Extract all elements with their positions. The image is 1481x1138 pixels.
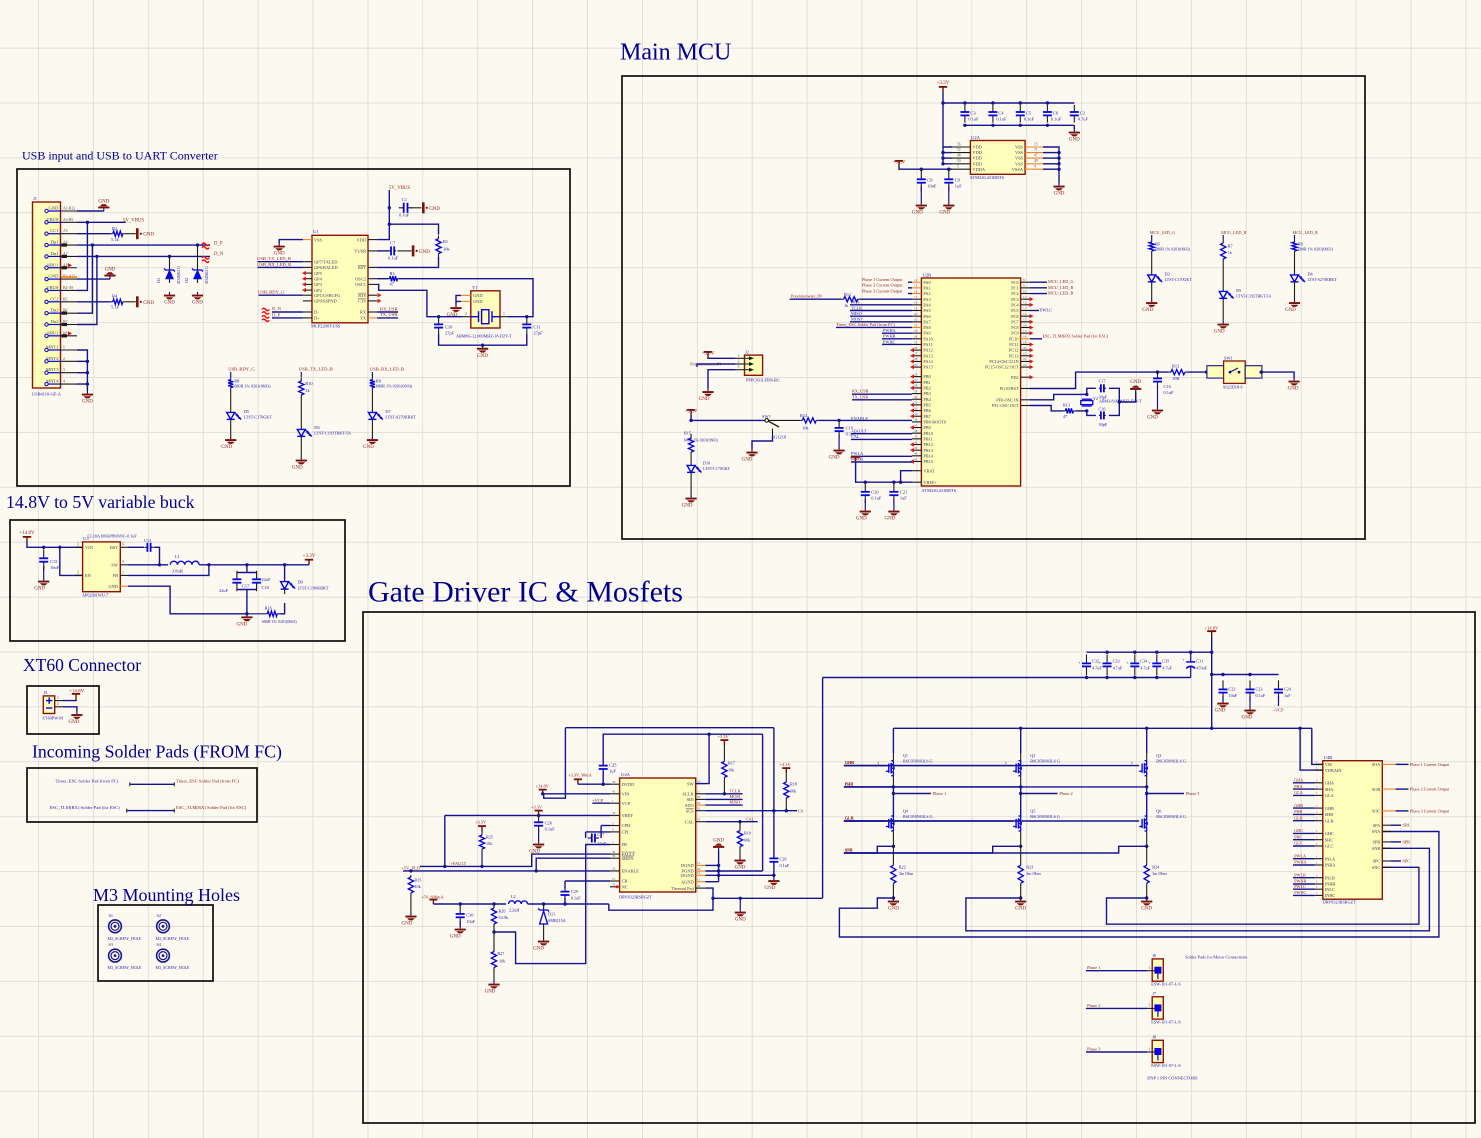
junction EN tap <box>58 546 61 549</box>
no-ERC PB15 <box>910 459 914 463</box>
svg-text:3.8uH: 3.8uH <box>172 569 184 574</box>
capacitor C21 1uF <box>889 484 898 503</box>
svg-text:MOSI: MOSI <box>851 317 862 322</box>
junction Dn1-D1 <box>168 255 171 258</box>
svg-text:D-: D- <box>314 310 319 315</box>
svg-text:Timer_ESC Solder Pad (from FC): Timer_ESC Solder Pad (from FC) <box>56 779 119 784</box>
lead R27 gnd <box>493 968 495 982</box>
Y1 pin4 GND <box>461 294 471 296</box>
junction C16a <box>1156 370 1159 373</box>
wire Dn1 net D_N <box>77 255 210 257</box>
svg-text:VIN: VIN <box>85 545 94 550</box>
pin pad mark <box>62 266 68 269</box>
svg-text:4: 4 <box>63 380 65 384</box>
resistor R9 <box>370 378 375 390</box>
junction C20 <box>864 481 867 484</box>
svg-text:4: 4 <box>1005 761 1007 765</box>
U1 pin RTS <box>368 294 377 296</box>
ground flag R22 <box>888 898 899 912</box>
svg-text:C6: C6 <box>1053 111 1059 116</box>
mounting hole S3 <box>109 949 122 962</box>
junction PHA <box>892 785 895 788</box>
wire net SPA right <box>1391 824 1401 826</box>
svg-text:PA5: PA5 <box>923 308 930 313</box>
wire rail A <box>565 727 774 729</box>
wire MCU_LED_R down <box>1294 235 1296 239</box>
svg-text:VDD: VDD <box>972 161 982 166</box>
svg-text:22uF: 22uF <box>219 588 229 593</box>
LED D5 <box>1219 289 1234 303</box>
power port +3.3V vref <box>849 456 862 462</box>
wire net PWHC <box>882 343 912 345</box>
svg-text:SBU1: SBU1 <box>47 262 59 267</box>
LED D9 <box>281 579 296 594</box>
svg-text:5: 5 <box>957 165 959 169</box>
transistor Q3 BSC050N03LS <box>1139 761 1148 776</box>
svg-text:GLA: GLA <box>1294 790 1303 795</box>
wire CPL down <box>585 832 587 838</box>
svg-text:BSC050N03LS G: BSC050N03LS G <box>1156 814 1186 819</box>
svg-text:Phase 3: Phase 3 <box>1087 1046 1100 1051</box>
svg-text:22uF: 22uF <box>262 577 272 582</box>
wire PHA <box>844 786 894 788</box>
U2B pin PB4 <box>912 398 921 400</box>
J1 pin MNT4 <box>45 379 77 386</box>
pin pad mark <box>62 323 68 326</box>
ground flag at J1 pin7 <box>104 268 115 279</box>
svg-text:DGND: DGND <box>681 873 694 878</box>
svg-text:DNP 1 PIN CONNECTORS: DNP 1 PIN CONNECTORS <box>1147 1076 1198 1081</box>
svg-text:LTST-S270KRKT: LTST-S270KRKT <box>1308 277 1338 282</box>
svg-text:ESW-101-07-L-S: ESW-101-07-L-S <box>1151 1063 1181 1068</box>
svg-text:10k: 10k <box>414 884 421 889</box>
capacitor C23 0.1uF <box>1246 680 1255 701</box>
wire phase node PHB <box>1020 787 1022 816</box>
capacitor C9 1uF <box>944 170 953 191</box>
svg-text:INLB: INLB <box>1325 875 1335 880</box>
svg-text:13: 13 <box>1023 306 1027 310</box>
power bar +5V <box>429 899 437 904</box>
svg-text:+3.3V: +3.3V <box>718 734 730 739</box>
lead R19 top <box>739 822 741 831</box>
svg-text:33: 33 <box>914 412 918 416</box>
connector J6 ESW-101-07-L-S body <box>1152 959 1163 981</box>
junction C3 top <box>963 101 966 104</box>
junction R26 <box>492 902 495 905</box>
J2 pin 1 <box>736 357 745 359</box>
U2B pin PC15-OSC32 OUT <box>1021 366 1030 368</box>
wire VSS rail <box>1043 147 1059 183</box>
pin pad mark <box>62 312 68 315</box>
svg-text:22: 22 <box>1023 357 1027 361</box>
no-ERC PC8 <box>1030 325 1034 329</box>
wire J5 to GND <box>63 707 77 712</box>
svg-text:D9: D9 <box>298 580 304 585</box>
svg-text:34: 34 <box>697 801 701 805</box>
svg-text:J8: J8 <box>1152 1035 1156 1040</box>
capacitor C15 10uF <box>39 549 48 570</box>
ground flag Y1 <box>447 305 462 319</box>
svg-text:VUSB: VUSB <box>354 249 366 254</box>
wire PWLB PB15 <box>851 461 912 463</box>
svg-text:C28: C28 <box>780 857 787 862</box>
svg-text:B5: B5 <box>63 297 68 301</box>
svg-text:U4A: U4A <box>621 772 631 777</box>
svg-text:+3.3V: +3.3V <box>937 81 950 86</box>
junction C33 bottom <box>1105 676 1108 679</box>
section box: Main MCU <box>622 76 1365 539</box>
wire Timer_ESC pad <box>130 783 175 785</box>
lead D5-gnd <box>1222 303 1224 321</box>
U4A pin VREF <box>610 814 620 816</box>
no-ERC PC7 <box>1030 320 1034 324</box>
svg-text:U2A: U2A <box>971 135 981 140</box>
svg-text:ESW-101-07-L-S: ESW-101-07-L-S <box>1151 1020 1181 1025</box>
U4B pin VM <box>1315 763 1323 765</box>
U2A pin VSS <box>1025 152 1043 154</box>
U2B pin PB15 <box>912 461 921 463</box>
svg-text:50: 50 <box>957 159 961 163</box>
svg-text:SNA: SNA <box>1372 829 1381 834</box>
svg-text:Dp1: Dp1 <box>51 240 60 245</box>
svg-text:Phase 1 Current Output: Phase 1 Current Output <box>862 277 903 282</box>
svg-text:D+: D+ <box>314 316 320 321</box>
no-ERC PA15 <box>910 365 914 369</box>
junction rail <box>941 101 944 104</box>
svg-text:PWHB: PWHB <box>883 334 896 339</box>
capacitor C6 0.1uF <box>1043 105 1052 123</box>
wire net MCU_LED_G <box>1030 281 1047 283</box>
svg-text:D5: D5 <box>244 409 250 414</box>
svg-text:CC2: CC2 <box>50 296 59 301</box>
wire SPA <box>844 846 894 853</box>
U2B pin PA0 <box>912 281 921 283</box>
svg-text:DRV8323RSRGZT: DRV8323RSRGZT <box>619 895 652 900</box>
resistor R26 54.9k <box>491 905 496 927</box>
ground flag Y2 <box>1130 380 1141 392</box>
capacitor C20 0.1uF <box>861 484 870 503</box>
U2B pin PB13 <box>912 449 921 451</box>
svg-text:MCU_LED_R: MCU_LED_R <box>1048 291 1073 296</box>
wire net MISO <box>850 315 912 317</box>
svg-text:R2: R2 <box>112 226 117 231</box>
wire SPC <box>844 846 1147 853</box>
svg-text:SDO: SDO <box>685 803 694 808</box>
U4B pin SPB right <box>1382 841 1391 843</box>
ground flag R24 <box>1141 898 1152 912</box>
svg-text:GND: GND <box>829 456 840 461</box>
U4B pin SOB right <box>1382 788 1395 790</box>
no-ERC PB0 <box>910 374 914 378</box>
svg-text:USB input and USB to UART Conv: USB input and USB to UART Converter <box>22 149 218 163</box>
svg-text:GND: GND <box>735 866 746 871</box>
transistor Q5 BSC050N03LS <box>1013 816 1022 831</box>
svg-text:C8: C8 <box>927 178 933 183</box>
IC U4B DRV8323RSRGZT body <box>1323 761 1383 900</box>
wire VDD to R1 top <box>389 224 438 234</box>
Q4 source lead <box>892 831 894 846</box>
U2B pin PC7 <box>1021 321 1030 323</box>
svg-text:4.7uF: 4.7uF <box>1078 117 1089 122</box>
svg-text:4: 4 <box>1034 165 1036 169</box>
stub gnd bus flag <box>739 898 741 909</box>
wire +3.3V to switch <box>691 415 765 420</box>
junction VDD rail 163.8 <box>941 162 944 165</box>
junction VBAT <box>899 481 902 484</box>
U3 pin FB <box>120 574 128 576</box>
svg-text:PWHC: PWHC <box>883 339 896 344</box>
wire xtal loop top2 <box>1109 388 1119 402</box>
svg-text:LTST-C170GKT: LTST-C170GKT <box>1165 277 1193 282</box>
U3 pin GND <box>120 585 128 587</box>
svg-text:BSC050N03LS G: BSC050N03LS G <box>1030 759 1060 764</box>
svg-text:PB12: PB12 <box>923 442 933 447</box>
wire TX_USB PB4 <box>852 399 912 401</box>
lead R5-D3 <box>1151 254 1153 273</box>
U2B pin PC11 <box>1021 343 1030 345</box>
lead R22 bottom <box>892 883 894 898</box>
svg-text:M3 Mounting Holes: M3 Mounting Holes <box>93 885 240 905</box>
connector J1 USB4110-GF-A body <box>33 202 61 388</box>
svg-text:D10: D10 <box>703 461 710 466</box>
svg-text:M3_SCREW_HOLE: M3_SCREW_HOLE <box>108 936 143 941</box>
pin tick L1 <box>129 782 131 786</box>
U2B pin PA2 <box>912 293 921 295</box>
Q1 source lead <box>892 776 894 787</box>
lead C1 gnd <box>411 207 422 209</box>
junction VDD rail 158.1 <box>941 156 944 159</box>
wire drain Q2 <box>1020 728 1022 753</box>
svg-text:PHC: PHC <box>1294 834 1302 839</box>
wire RX_USB <box>377 311 398 313</box>
lead R2 to gnd <box>125 233 136 235</box>
capacitor C35 4.7uF <box>1152 654 1161 675</box>
svg-text:19: 19 <box>1023 340 1027 344</box>
wire R16 to D9 <box>279 603 284 614</box>
U1 pin GP2 <box>303 289 312 291</box>
svg-text:2: 2 <box>77 571 79 575</box>
J7 pad symbol <box>1154 1004 1161 1017</box>
svg-text:10k: 10k <box>728 768 735 773</box>
svg-text:Dn1: Dn1 <box>51 251 60 256</box>
svg-text:MCU_LED_G: MCU_LED_G <box>1048 279 1074 284</box>
lead D11 top <box>543 904 545 910</box>
junction vcp rail <box>1210 673 1213 676</box>
U2A pin VDD <box>952 146 970 148</box>
J2 pin arrow 2 <box>749 362 754 366</box>
svg-text:D6: D6 <box>314 425 320 430</box>
wire R11 to PA3 <box>860 298 912 300</box>
svg-text:OSC2: OSC2 <box>355 276 366 281</box>
power port +3.3V buck out <box>303 554 316 565</box>
Q5 source lead <box>1020 831 1022 846</box>
wire ESC_TLM pad <box>127 810 175 812</box>
power bar +3.3V 30mA <box>574 778 582 784</box>
J5 pin2 <box>55 706 63 708</box>
junction R15 tap <box>689 419 692 422</box>
lead D6-gnd <box>300 441 302 457</box>
wire crystal right node <box>508 316 527 318</box>
junction C5 top <box>1019 101 1022 104</box>
svg-text:SD4580211: SD4580211 <box>205 266 209 284</box>
wire SDI <box>705 798 742 800</box>
junction VIN +14.8V <box>541 792 544 795</box>
wire gate GHB <box>844 765 1013 767</box>
svg-text:PC7: PC7 <box>1011 319 1019 324</box>
junction C9 <box>947 168 950 171</box>
U1 pin OSC1 <box>368 283 377 285</box>
svg-text:22: 22 <box>914 323 918 327</box>
svg-text:PA12: PA12 <box>923 348 932 353</box>
svg-text:ESC_TLM(RX) Solder Pad (for ES: ESC_TLM(RX) Solder Pad (for ESC) <box>1043 334 1109 339</box>
svg-text:GND: GND <box>49 274 60 279</box>
wire net SPB right <box>1391 841 1401 843</box>
lead R22 top <box>892 846 894 865</box>
svg-text:SHA: SHA <box>1325 787 1334 792</box>
svg-text:3: 3 <box>465 312 467 316</box>
svg-text:VDD: VDD <box>356 237 366 242</box>
Y1 pin2 GND <box>461 300 471 302</box>
wire cap bank top rail <box>1087 651 1212 653</box>
U2B pin PC12 <box>1021 349 1030 351</box>
pin tick R1 <box>173 782 175 786</box>
svg-text:Phase 3 Current Output: Phase 3 Current Output <box>1410 808 1450 813</box>
junction C25-DVDD <box>602 783 605 786</box>
svg-text:GHB: GHB <box>1294 803 1303 808</box>
U4A pin SDI right <box>696 798 706 800</box>
ground flag DGND rail <box>713 839 724 851</box>
svg-text:R22: R22 <box>899 865 906 870</box>
U4A pin DGND right <box>696 874 706 876</box>
lead C30 gnd <box>459 921 461 926</box>
svg-text:GP6/RXLED: GP6/RXLED <box>314 265 338 270</box>
ground flag D5 <box>221 437 236 451</box>
U1 pin TX <box>368 317 377 319</box>
wire Phase 3 to J8 <box>1086 1051 1147 1053</box>
ground flag C21 <box>884 508 899 522</box>
svg-text:D3: D3 <box>1165 272 1170 277</box>
lead C22 gnd <box>1222 696 1224 700</box>
svg-text:CPH: CPH <box>622 823 631 828</box>
wire SW to rail B <box>696 734 709 783</box>
ground flag D6 <box>292 457 307 471</box>
svg-text:C24: C24 <box>1284 686 1292 691</box>
svg-text:R14: R14 <box>800 413 808 418</box>
svg-text:GND: GND <box>192 301 203 306</box>
svg-text:GND: GND <box>1141 907 1152 912</box>
svg-text:3m Ohm: 3m Ohm <box>1026 871 1041 876</box>
wire USB_RDY_G down <box>230 372 232 378</box>
wire +14.8V to VIN <box>27 542 83 547</box>
svg-text:36: 36 <box>612 780 616 784</box>
U4B pin SPA right <box>1382 824 1391 826</box>
svg-text:21: 21 <box>1023 352 1027 356</box>
svg-text:RX_USB: RX_USB <box>380 306 398 311</box>
svg-text:PB7: PB7 <box>923 414 931 419</box>
svg-text:0.1uF: 0.1uF <box>871 496 882 501</box>
no-ERC PC14 <box>1030 359 1034 363</box>
junction C29 rail <box>563 902 566 905</box>
lead C7 gnd <box>397 250 411 252</box>
U2A pin VDD <box>952 163 970 165</box>
capacitor C4 0.1uF <box>988 105 997 123</box>
wire drain Q3 <box>1146 728 1148 753</box>
svg-text:TX_USB: TX_USB <box>852 394 868 399</box>
svg-text:PC8: PC8 <box>1011 325 1018 330</box>
transistor Q2 BSC050N03LS <box>1013 761 1022 776</box>
svg-text:ABM8G-12.000MHZ-18-D2Y-T: ABM8G-12.000MHZ-18-D2Y-T <box>456 334 512 339</box>
svg-text:VDRAIN: VDRAIN <box>1325 768 1342 773</box>
pin tick R2 <box>173 809 175 813</box>
svg-text:4: 4 <box>877 761 879 765</box>
wire PHB <box>844 786 1021 788</box>
wire gate GHC <box>844 765 1139 767</box>
U4A pin FB <box>610 844 620 846</box>
svg-text:GND: GND <box>735 918 746 923</box>
junction Dp1 <box>91 243 94 246</box>
junction SPB <box>1019 845 1022 848</box>
svg-text:PWLB: PWLB <box>1294 872 1306 877</box>
lead C24 vcp <box>1278 696 1280 706</box>
U4B pin SHA <box>1315 788 1323 790</box>
svg-text:PA0: PA0 <box>923 280 930 285</box>
Y1 pin3 <box>462 316 471 318</box>
svg-text:A1-B12: A1-B12 <box>63 207 75 211</box>
lead C23 gnd <box>1249 696 1251 707</box>
wire phase node PHC <box>1146 787 1148 816</box>
capacitor C30 10uF <box>456 905 465 926</box>
ground flag D10 <box>682 495 697 509</box>
svg-text:33: 33 <box>612 867 616 871</box>
svg-text:C33: C33 <box>1113 658 1120 663</box>
svg-text:PB3: PB3 <box>923 391 930 396</box>
Q3 source lead <box>1146 776 1148 787</box>
power bar +14.8V U4A <box>539 789 547 794</box>
svg-text:GP1/USBCFG: GP1/USBCFG <box>314 293 341 298</box>
svg-text:PC1: PC1 <box>1011 285 1018 290</box>
svg-text:SOB: SOB <box>1372 787 1380 792</box>
transistor Q1 BSC050N03LS <box>886 761 895 776</box>
junction SPC <box>1145 845 1148 848</box>
U2B pin PA1 <box>912 287 921 289</box>
svg-text:VSS: VSS <box>1015 150 1024 155</box>
svg-text:+14.8V: +14.8V <box>1205 625 1220 630</box>
svg-text:PWHC: PWHC <box>1294 890 1306 895</box>
lead gndbus-R16 <box>247 613 265 615</box>
wire cap pair top <box>237 572 257 574</box>
U2B pin PA3 <box>912 298 921 300</box>
svg-text:1: 1 <box>122 571 124 575</box>
svg-text:GP4: GP4 <box>314 276 323 281</box>
no-ERC PB7 <box>910 414 914 418</box>
junction C32 bottom <box>1085 676 1088 679</box>
junction VREF-FAULT <box>443 865 446 868</box>
IC U3 AP62301WU-7 body <box>83 542 121 592</box>
junction C35 bottom <box>1155 676 1158 679</box>
capacitor C27 47nF <box>588 834 599 843</box>
svg-text:47nF: 47nF <box>597 841 606 846</box>
lead C20 gnd <box>864 499 866 508</box>
svg-text:29: 29 <box>914 363 918 367</box>
svg-text:6: 6 <box>122 543 124 547</box>
svg-text:Y1: Y1 <box>472 285 478 290</box>
switch SW1 body <box>1207 361 1262 383</box>
lead D3-gnd <box>1151 287 1153 300</box>
junction Dn1 <box>95 255 98 258</box>
no-ERC right pin y295.2 <box>378 293 382 297</box>
svg-text:GND: GND <box>888 907 899 912</box>
lead D7-gnd <box>371 424 373 437</box>
